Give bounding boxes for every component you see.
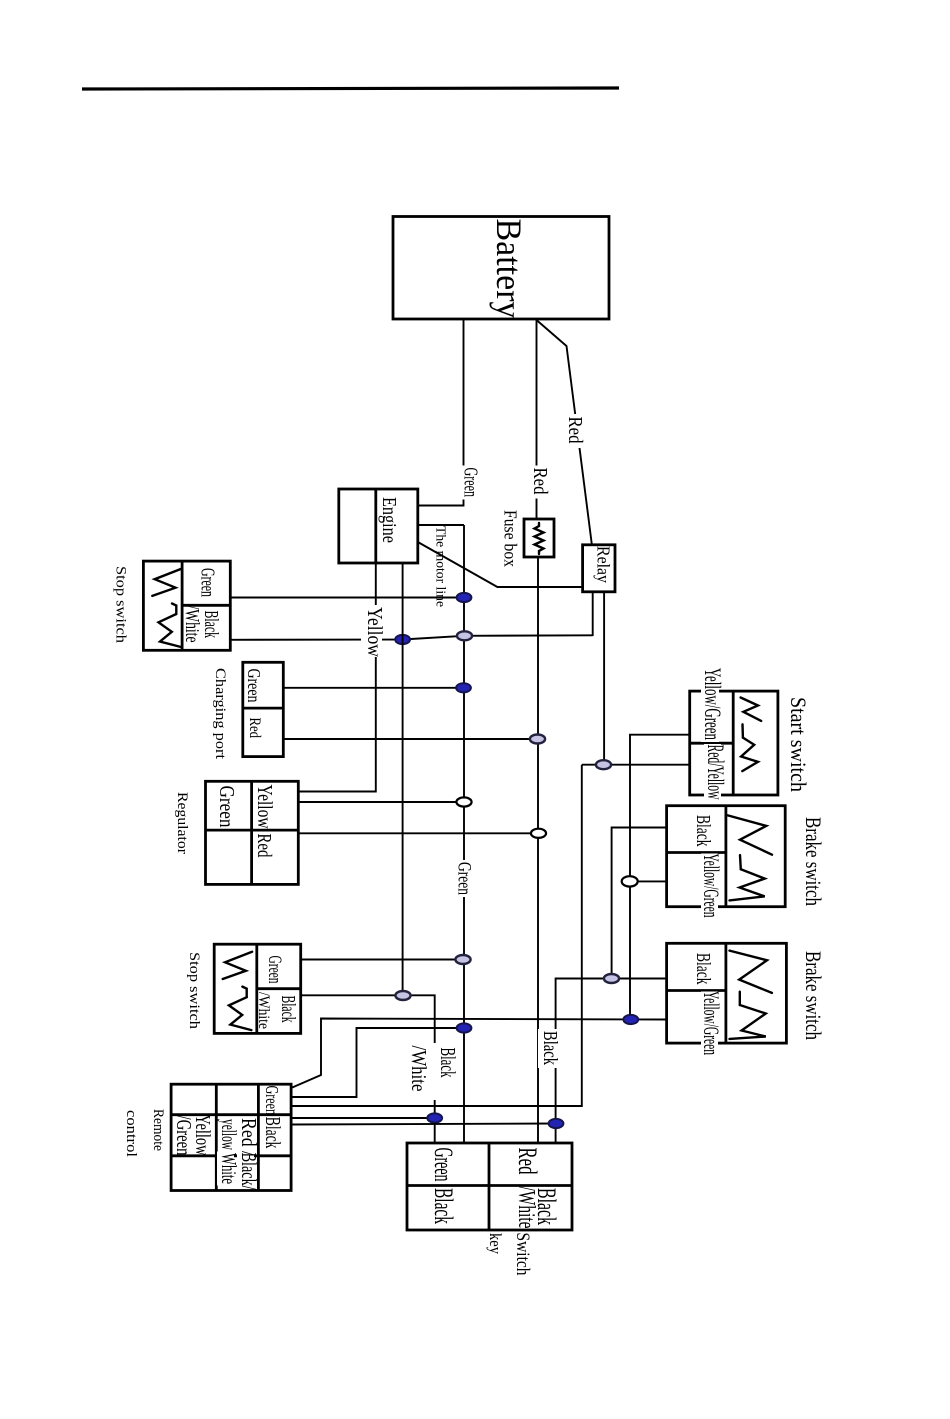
label The motor line	[433, 526, 448, 607]
wire charging red to junction	[283, 738, 537, 740]
svg-text:Yellow/Green: Yellow/Green	[699, 991, 723, 1055]
start switch box	[690, 667, 778, 802]
brake switch 2 contact bar	[739, 992, 741, 1005]
svg-text:Black/: Black/	[237, 1153, 260, 1190]
stop switch 1 contact zigzag lower	[159, 604, 182, 648]
brake switch 1 contact zigzag upper	[728, 815, 772, 854]
junction J14	[549, 1119, 564, 1128]
junction J16	[530, 735, 545, 744]
svg-text:Green: Green	[460, 468, 482, 498]
fuse box F1	[524, 519, 554, 557]
wire stop switch 1 green to junction	[230, 597, 464, 599]
svg-text:key: key	[486, 1233, 504, 1254]
svg-text:yellow: yellow	[217, 1119, 240, 1150]
svg-text:/White: /White	[255, 992, 272, 1029]
svg-text:Green: Green	[264, 956, 285, 984]
wire relay right pin down to start switch junction	[603, 592, 605, 764]
svg-text:/White: /White	[513, 1187, 539, 1229]
junction J6	[456, 797, 471, 806]
remote control box	[171, 1084, 291, 1190]
svg-text:Red: Red	[513, 1148, 542, 1175]
stop switch 1 box	[143, 561, 230, 650]
junction J2	[395, 635, 410, 644]
svg-text:Red: Red	[253, 834, 275, 858]
engine box	[339, 489, 418, 563]
svg-text:/White: /White	[181, 606, 203, 643]
svg-text:control: control	[123, 1110, 139, 1157]
svg-text:Brake switch: Brake switch	[800, 951, 824, 1041]
svg-text:Brake switch: Brake switch	[800, 817, 824, 907]
wire stop switch 2 green to junction	[301, 959, 463, 961]
svg-text:/Green: /Green	[172, 1116, 195, 1156]
wire fuse down to key switch red	[537, 557, 539, 1143]
svg-text:White: White	[217, 1153, 240, 1184]
junction J11	[623, 1015, 638, 1024]
battery B1	[393, 217, 609, 320]
junction J5	[622, 876, 638, 886]
junction J9	[604, 974, 619, 983]
label Stop switch upper	[113, 566, 129, 644]
junction J10	[395, 991, 410, 1000]
svg-text:Black: Black	[692, 953, 715, 985]
wire charging green to junction	[283, 687, 463, 689]
svg-text:Switch: Switch	[513, 1233, 534, 1276]
wire stop switch 2 black/white right and down to key switch	[301, 995, 435, 1143]
brake switch 2 contact zigzag lower	[730, 1005, 766, 1039]
svg-text:Yellow/Green: Yellow/Green	[699, 854, 723, 918]
junction J8	[455, 955, 470, 964]
svg-text:Black: Black	[692, 815, 715, 847]
junction J7	[531, 829, 546, 838]
label Black on key red wire	[538, 1029, 563, 1068]
svg-text:Black: Black	[436, 1048, 460, 1078]
svg-text:Black: Black	[539, 1031, 562, 1065]
svg-text:Green: Green	[261, 1086, 281, 1116]
svg-text:Yellow: Yellow	[363, 607, 387, 657]
svg-text:Red: Red	[246, 718, 263, 739]
svg-text:Green: Green	[215, 786, 239, 828]
start switch contact bar	[741, 724, 744, 737]
label Start switch	[785, 697, 809, 793]
wire red/yellow down and left to remote	[291, 765, 582, 1106]
junction J12	[457, 1023, 472, 1032]
svg-text:Relay: Relay	[593, 546, 614, 584]
relay box K1	[583, 545, 615, 592]
svg-text:Black: Black	[277, 996, 300, 1023]
label Black/White on key green wire	[405, 1043, 460, 1100]
svg-text:Black: Black	[261, 1117, 284, 1149]
regulator box	[206, 781, 299, 884]
wire engine second pin down	[402, 563, 404, 996]
svg-text:Red: Red	[529, 468, 552, 495]
wire relay left pin down	[592, 592, 594, 636]
wire regulator red to junction	[298, 832, 538, 834]
brake switch 1 contact bar	[739, 855, 742, 869]
svg-text:Black: Black	[429, 1188, 458, 1224]
svg-text:Remote: Remote	[150, 1109, 166, 1151]
wire start switch yellow/green left and down	[630, 735, 690, 1020]
svg-text:Stop switch: Stop switch	[186, 952, 202, 1030]
wire brake1 yellow/green to junction	[630, 880, 667, 882]
brake switch 2 box	[667, 943, 787, 1057]
svg-text:Red /: Red /	[237, 1118, 260, 1156]
label Fuse box	[500, 510, 521, 568]
wire battery red down to fuse	[536, 319, 538, 519]
top rule line	[82, 88, 619, 89]
wire stop switch 1 black/white to relay	[230, 635, 592, 640]
brake switch 1 box	[667, 806, 786, 920]
svg-text:Red: Red	[564, 417, 587, 444]
svg-text:Green: Green	[197, 568, 219, 598]
brake switch 1 contact zigzag lower	[730, 869, 765, 900]
charging port box	[243, 662, 283, 756]
svg-text:/White: /White	[407, 1046, 431, 1092]
start switch contact zigzag upper	[741, 698, 762, 721]
label Red on fuse wire	[527, 466, 553, 499]
wire brake2 yellow/green long left to remote diagonal	[291, 1019, 666, 1089]
wire remote green up right (wire B)	[291, 1028, 464, 1097]
wire battery red diagonal to relay	[537, 320, 592, 544]
svg-text:Red/Yellow: Red/Yellow	[702, 745, 728, 800]
label Brake switch upper	[800, 817, 824, 907]
wire remote black to key green junction	[291, 1117, 435, 1119]
label Red on relay wire	[562, 414, 588, 448]
svg-text:Regulator: Regulator	[174, 792, 190, 854]
svg-text:Green: Green	[454, 862, 476, 896]
wire regulator middle to junction	[298, 801, 464, 803]
wire start switch red/yellow left	[582, 764, 690, 766]
label Green on green vertical	[453, 860, 476, 897]
svg-text:Engine: Engine	[379, 497, 401, 543]
junction J15	[456, 683, 471, 692]
svg-text:Stop switch: Stop switch	[113, 566, 129, 644]
label Charging port	[212, 668, 228, 760]
key switch box	[407, 1143, 572, 1230]
svg-text:Fuse box: Fuse box	[500, 510, 521, 568]
svg-text:The motor line: The motor line	[433, 526, 448, 607]
junction J13	[427, 1113, 442, 1122]
wire engine pin to green vertical	[418, 524, 464, 526]
stop switch 2 contact zigzag upper	[223, 952, 252, 979]
label Remote control	[123, 1109, 166, 1157]
brake switch 2 contact zigzag upper	[730, 951, 772, 993]
svg-text:Charging port: Charging port	[212, 668, 228, 760]
label Regulator	[174, 792, 190, 854]
junction J1	[457, 593, 472, 602]
wire battery green down to engine	[418, 319, 464, 506]
svg-text:Start switch: Start switch	[785, 697, 809, 793]
label Stop switch lower	[186, 952, 202, 1030]
label Switch key	[486, 1233, 534, 1276]
stop switch 2 box	[214, 944, 301, 1033]
label Yellow	[361, 605, 387, 657]
label Green on battery wire	[457, 466, 483, 500]
stop switch 1 contact zigzag upper	[152, 569, 181, 596]
svg-text:Battery: Battery	[488, 219, 527, 319]
junction J4	[596, 760, 611, 769]
svg-text:Green: Green	[243, 669, 262, 703]
svg-text:Yellow: Yellow	[253, 785, 277, 829]
junction J3	[457, 631, 472, 640]
wire brake2 black left and down to key switch	[556, 979, 667, 1144]
label Brake switch lower	[800, 951, 824, 1041]
wire brake1 black left and down	[612, 828, 667, 979]
wire remote black 2 to key red junction	[291, 1124, 556, 1125]
wire motor line diagonal to relay	[418, 542, 583, 587]
stop switch 2 contact zigzag lower	[229, 987, 252, 1031]
start switch contact zigzag lower	[741, 738, 758, 772]
wire engine yellow down to regulator	[298, 563, 376, 792]
wire green vertical main	[463, 525, 465, 1143]
svg-text:Green: Green	[429, 1148, 458, 1182]
svg-text:Yellow/Green: Yellow/Green	[699, 668, 725, 740]
